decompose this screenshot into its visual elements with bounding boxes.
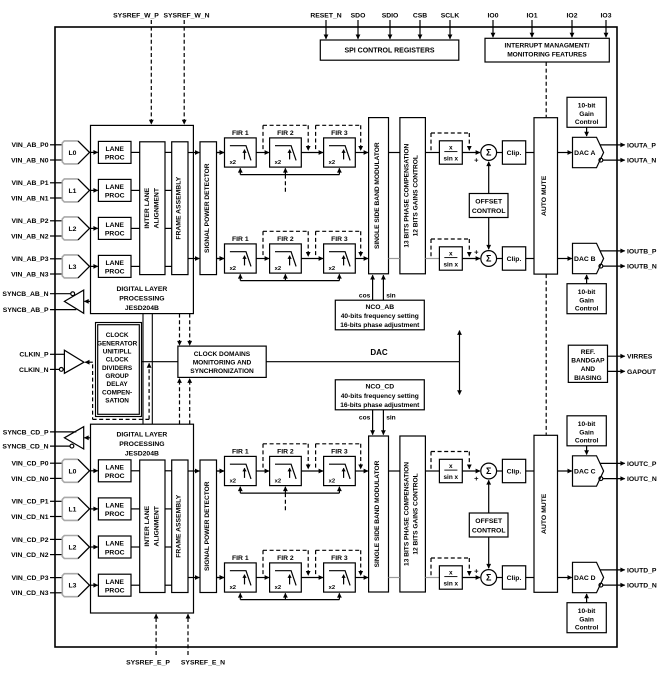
svg-text:x2: x2 bbox=[329, 585, 335, 591]
svg-text:SIGNAL POWER DETECTOR: SIGNAL POWER DETECTOR bbox=[204, 481, 211, 571]
svg-text:GENERATOR: GENERATOR bbox=[97, 340, 138, 347]
svg-text:Gain: Gain bbox=[579, 616, 594, 623]
svg-text:DAC D: DAC D bbox=[574, 575, 596, 582]
svg-text:FRAME ASSEMBLY: FRAME ASSEMBLY bbox=[176, 176, 183, 239]
svg-text:SIGNAL POWER DETECTOR: SIGNAL POWER DETECTOR bbox=[204, 163, 211, 253]
svg-text:SYNCB_CD_P: SYNCB_CD_P bbox=[3, 429, 49, 436]
svg-text:LANE: LANE bbox=[105, 184, 124, 191]
svg-text:SDO: SDO bbox=[351, 13, 366, 20]
svg-text:GROUP: GROUP bbox=[105, 373, 129, 380]
svg-text:cos: cos bbox=[359, 414, 371, 421]
svg-text:LANE: LANE bbox=[105, 464, 124, 471]
svg-text:LANE: LANE bbox=[105, 146, 124, 153]
svg-text:sin x: sin x bbox=[444, 262, 459, 269]
svg-text:JESD204B: JESD204B bbox=[125, 451, 159, 458]
svg-text:VIN_CD_P3: VIN_CD_P3 bbox=[11, 575, 48, 582]
svg-text:x2: x2 bbox=[230, 266, 236, 272]
svg-text:PROC: PROC bbox=[105, 193, 125, 200]
svg-text:FIR 1: FIR 1 bbox=[232, 130, 249, 137]
svg-text:NCO_AB: NCO_AB bbox=[365, 304, 394, 311]
svg-text:INTERRUPT MANAGMENT/: INTERRUPT MANAGMENT/ bbox=[505, 43, 590, 50]
svg-text:SPI CONTROL REGISTERS: SPI CONTROL REGISTERS bbox=[344, 48, 434, 55]
svg-text:SYSREF_W_N: SYSREF_W_N bbox=[163, 13, 209, 20]
svg-text:40-bits frequency setting: 40-bits frequency setting bbox=[341, 313, 419, 320]
svg-text:x: x bbox=[449, 251, 453, 258]
svg-text:FIR 1: FIR 1 bbox=[232, 449, 249, 456]
svg-text:x2: x2 bbox=[230, 585, 236, 591]
svg-text:13 BITS PHASE COMPENSATION: 13 BITS PHASE COMPENSATION bbox=[403, 462, 410, 566]
svg-text:SYNCB_AB_P: SYNCB_AB_P bbox=[3, 307, 49, 314]
svg-text:LANE: LANE bbox=[105, 579, 124, 586]
svg-text:CLOCK: CLOCK bbox=[106, 357, 129, 364]
svg-text:Σ: Σ bbox=[486, 573, 492, 583]
svg-text:FRAME ASSEMBLY: FRAME ASSEMBLY bbox=[176, 494, 183, 557]
svg-text:L2: L2 bbox=[69, 545, 77, 552]
svg-text:x2: x2 bbox=[329, 160, 335, 166]
svg-text:sin: sin bbox=[386, 414, 396, 421]
svg-text:BIASING: BIASING bbox=[574, 375, 601, 382]
svg-text:FIR 3: FIR 3 bbox=[331, 555, 348, 562]
svg-text:x2: x2 bbox=[230, 479, 236, 485]
svg-text:x2: x2 bbox=[230, 160, 236, 166]
svg-text:LANE: LANE bbox=[105, 541, 124, 548]
svg-text:GAPOUT: GAPOUT bbox=[627, 369, 657, 376]
svg-text:sin x: sin x bbox=[444, 581, 459, 588]
svg-text:x: x bbox=[449, 570, 453, 577]
svg-text:x: x bbox=[449, 145, 453, 152]
svg-text:CONTROL: CONTROL bbox=[472, 208, 506, 215]
svg-text:REF.: REF. bbox=[581, 349, 595, 356]
svg-text:AUTO MUTE: AUTO MUTE bbox=[541, 493, 548, 534]
svg-text:10-bit: 10-bit bbox=[578, 608, 596, 615]
svg-text:x2: x2 bbox=[275, 266, 281, 272]
svg-text:x2: x2 bbox=[275, 160, 281, 166]
svg-text:IOUTD_N: IOUTD_N bbox=[627, 583, 657, 590]
svg-text:PROCESSING: PROCESSING bbox=[119, 441, 164, 448]
svg-text:VIN_CD_P0: VIN_CD_P0 bbox=[11, 461, 48, 468]
svg-text:ALIGNMENT: ALIGNMENT bbox=[154, 187, 161, 228]
svg-text:L1: L1 bbox=[69, 506, 77, 513]
svg-text:FIR 2: FIR 2 bbox=[277, 130, 294, 137]
svg-text:CLOCK: CLOCK bbox=[106, 332, 129, 339]
svg-text:BANDGAP: BANDGAP bbox=[571, 358, 605, 365]
svg-text:INTER LANE: INTER LANE bbox=[144, 505, 151, 546]
svg-text:PROCESSING: PROCESSING bbox=[119, 296, 164, 303]
svg-text:IO2: IO2 bbox=[567, 13, 578, 20]
svg-text:CLOCK DOMAINS: CLOCK DOMAINS bbox=[194, 351, 251, 358]
svg-text:Σ: Σ bbox=[486, 466, 492, 476]
svg-text:Clip.: Clip. bbox=[507, 575, 522, 582]
svg-text:L1: L1 bbox=[69, 188, 77, 195]
svg-text:IOUTD_P: IOUTD_P bbox=[627, 567, 657, 574]
svg-text:FIR 2: FIR 2 bbox=[277, 236, 294, 243]
svg-text:FIR 1: FIR 1 bbox=[232, 236, 249, 243]
svg-text:12 BITS GAINS CONTROL: 12 BITS GAINS CONTROL bbox=[412, 473, 419, 554]
svg-text:DIGITAL LAYER: DIGITAL LAYER bbox=[116, 432, 167, 439]
svg-text:CSB: CSB bbox=[413, 13, 427, 20]
svg-text:L0: L0 bbox=[69, 150, 77, 157]
svg-text:IOUTA_N: IOUTA_N bbox=[627, 158, 656, 165]
svg-text:12 BITS GAINS CONTROL: 12 BITS GAINS CONTROL bbox=[412, 155, 419, 236]
svg-text:VIN_AB_N1: VIN_AB_N1 bbox=[11, 195, 49, 202]
svg-text:ALIGNMENT: ALIGNMENT bbox=[154, 505, 161, 546]
svg-text:10-bit: 10-bit bbox=[578, 421, 596, 428]
svg-text:Clip.: Clip. bbox=[507, 468, 522, 475]
svg-text:L0: L0 bbox=[69, 468, 77, 475]
svg-text:13 BITS PHASE COMPENSATION: 13 BITS PHASE COMPENSATION bbox=[403, 144, 410, 248]
svg-text:OFFSET: OFFSET bbox=[475, 199, 503, 206]
svg-text:VIN_CD_N0: VIN_CD_N0 bbox=[11, 476, 49, 483]
svg-text:VIN_AB_N0: VIN_AB_N0 bbox=[11, 157, 49, 164]
svg-text:VIN_AB_P2: VIN_AB_P2 bbox=[11, 218, 48, 225]
svg-text:VIN_AB_P3: VIN_AB_P3 bbox=[11, 256, 48, 263]
svg-text:VIN_AB_P0: VIN_AB_P0 bbox=[11, 142, 48, 149]
svg-text:L3: L3 bbox=[69, 264, 77, 271]
svg-text:10-bit: 10-bit bbox=[578, 103, 596, 110]
svg-text:VIN_CD_P1: VIN_CD_P1 bbox=[11, 499, 48, 506]
svg-text:SYSREF_E_N: SYSREF_E_N bbox=[181, 659, 225, 666]
svg-text:SINGLE SIDE BAND MODULATOR: SINGLE SIDE BAND MODULATOR bbox=[374, 142, 381, 249]
svg-text:CLKIN_N: CLKIN_N bbox=[19, 367, 49, 374]
svg-text:VIRRES: VIRRES bbox=[627, 354, 653, 361]
svg-text:IO0: IO0 bbox=[488, 13, 499, 20]
svg-text:LANE: LANE bbox=[105, 222, 124, 229]
svg-text:UNIT/PLL: UNIT/PLL bbox=[103, 349, 132, 356]
svg-text:PROC: PROC bbox=[105, 549, 125, 556]
svg-text:VIN_AB_N2: VIN_AB_N2 bbox=[11, 233, 49, 240]
svg-text:AND: AND bbox=[581, 366, 596, 373]
svg-text:PROC: PROC bbox=[105, 588, 125, 595]
svg-text:cos: cos bbox=[359, 292, 371, 299]
svg-text:FIR 1: FIR 1 bbox=[232, 555, 249, 562]
svg-text:40-bits frequency setting: 40-bits frequency setting bbox=[341, 393, 419, 400]
svg-text:SINGLE SIDE BAND MODULATOR: SINGLE SIDE BAND MODULATOR bbox=[374, 460, 381, 567]
svg-text:+: + bbox=[474, 474, 479, 483]
svg-text:SYNCB_AB_N: SYNCB_AB_N bbox=[2, 291, 48, 298]
svg-text:NCO_CD: NCO_CD bbox=[365, 384, 394, 391]
svg-text:PROC: PROC bbox=[105, 473, 125, 480]
svg-text:+: + bbox=[474, 566, 479, 575]
svg-text:Σ: Σ bbox=[486, 254, 492, 264]
svg-text:PROC: PROC bbox=[105, 231, 125, 238]
svg-text:Gain: Gain bbox=[579, 429, 594, 436]
svg-text:x2: x2 bbox=[275, 585, 281, 591]
svg-text:Gain: Gain bbox=[579, 111, 594, 118]
svg-text:DAC: DAC bbox=[370, 348, 388, 357]
svg-text:+: + bbox=[474, 247, 479, 256]
svg-text:SATION: SATION bbox=[105, 397, 129, 404]
svg-text:MONITORING FEATURES: MONITORING FEATURES bbox=[507, 52, 587, 59]
svg-text:Clip.: Clip. bbox=[507, 256, 522, 263]
svg-text:Control: Control bbox=[575, 306, 599, 313]
svg-text:x2: x2 bbox=[329, 266, 335, 272]
svg-text:LANE: LANE bbox=[105, 503, 124, 510]
svg-text:Gain: Gain bbox=[579, 297, 594, 304]
svg-text:Control: Control bbox=[575, 438, 599, 445]
svg-text:IOUTB_P: IOUTB_P bbox=[627, 248, 657, 255]
svg-text:FIR 3: FIR 3 bbox=[331, 236, 348, 243]
svg-text:IOUTA_P: IOUTA_P bbox=[627, 142, 656, 149]
svg-text:FIR 2: FIR 2 bbox=[277, 555, 294, 562]
svg-text:SYSREF_E_P: SYSREF_E_P bbox=[126, 659, 170, 666]
svg-text:DAC B: DAC B bbox=[574, 256, 596, 263]
svg-text:IO3: IO3 bbox=[601, 13, 612, 20]
svg-text:16-bits phase adjustment: 16-bits phase adjustment bbox=[340, 402, 420, 409]
svg-text:DELAY: DELAY bbox=[107, 381, 129, 388]
svg-text:INTER LANE: INTER LANE bbox=[144, 187, 151, 228]
svg-text:DIGITAL LAYER: DIGITAL LAYER bbox=[116, 286, 167, 293]
svg-text:VIN_CD_N3: VIN_CD_N3 bbox=[11, 590, 49, 597]
svg-text:VIN_AB_P1: VIN_AB_P1 bbox=[11, 180, 48, 187]
svg-text:Control: Control bbox=[575, 625, 599, 632]
svg-text:PROC: PROC bbox=[105, 511, 125, 518]
svg-text:SYNCHRONIZATION: SYNCHRONIZATION bbox=[190, 368, 254, 375]
svg-text:LANE: LANE bbox=[105, 260, 124, 267]
svg-text:IOUTC_N: IOUTC_N bbox=[627, 476, 657, 483]
svg-text:x: x bbox=[449, 463, 453, 470]
svg-text:16-bits phase adjustment: 16-bits phase adjustment bbox=[340, 322, 420, 329]
svg-text:COMPEN-: COMPEN- bbox=[102, 389, 132, 396]
svg-text:x2: x2 bbox=[275, 479, 281, 485]
svg-text:SYNCB_CD_N: SYNCB_CD_N bbox=[2, 444, 48, 451]
svg-text:MONITORING AND: MONITORING AND bbox=[193, 360, 252, 367]
svg-text:DAC C: DAC C bbox=[574, 468, 596, 475]
svg-text:L2: L2 bbox=[69, 226, 77, 233]
svg-text:CONTROL: CONTROL bbox=[472, 528, 506, 535]
svg-text:VIN_CD_N2: VIN_CD_N2 bbox=[11, 552, 49, 559]
svg-text:x2: x2 bbox=[329, 479, 335, 485]
svg-text:SDIO: SDIO bbox=[382, 13, 399, 20]
svg-text:VIN_CD_P2: VIN_CD_P2 bbox=[11, 537, 48, 544]
svg-text:sin x: sin x bbox=[444, 156, 459, 163]
svg-text:VIN_AB_N3: VIN_AB_N3 bbox=[11, 271, 49, 278]
svg-text:sin: sin bbox=[386, 292, 396, 299]
svg-text:SYSREF_W_P: SYSREF_W_P bbox=[113, 13, 159, 20]
svg-text:DAC A: DAC A bbox=[574, 150, 595, 157]
svg-text:CLKIN_P: CLKIN_P bbox=[19, 352, 49, 359]
svg-text:L3: L3 bbox=[69, 583, 77, 590]
svg-text:IO1: IO1 bbox=[527, 13, 538, 20]
svg-text:sin x: sin x bbox=[444, 474, 459, 481]
svg-text:OFFSET: OFFSET bbox=[475, 518, 503, 525]
svg-text:PROC: PROC bbox=[105, 155, 125, 162]
svg-text:IOUTB_N: IOUTB_N bbox=[627, 264, 657, 271]
svg-text:Σ: Σ bbox=[486, 148, 492, 158]
svg-text:AUTO MUTE: AUTO MUTE bbox=[541, 175, 548, 216]
svg-text:FIR 2: FIR 2 bbox=[277, 449, 294, 456]
svg-text:PROC: PROC bbox=[105, 269, 125, 276]
svg-text:Control: Control bbox=[575, 119, 599, 126]
svg-text:IOUTC_P: IOUTC_P bbox=[627, 461, 657, 468]
svg-text:SCLK: SCLK bbox=[441, 13, 460, 20]
svg-text:RESET_N: RESET_N bbox=[310, 13, 341, 20]
svg-text:DIVIDERS: DIVIDERS bbox=[102, 365, 133, 372]
svg-text:FIR 3: FIR 3 bbox=[331, 449, 348, 456]
svg-text:10-bit: 10-bit bbox=[578, 289, 596, 296]
svg-text:VIN_CD_N1: VIN_CD_N1 bbox=[11, 514, 49, 521]
svg-text:+: + bbox=[474, 156, 479, 165]
svg-text:JESD204B: JESD204B bbox=[125, 305, 159, 312]
svg-text:FIR 3: FIR 3 bbox=[331, 130, 348, 137]
svg-text:Clip.: Clip. bbox=[507, 150, 522, 157]
